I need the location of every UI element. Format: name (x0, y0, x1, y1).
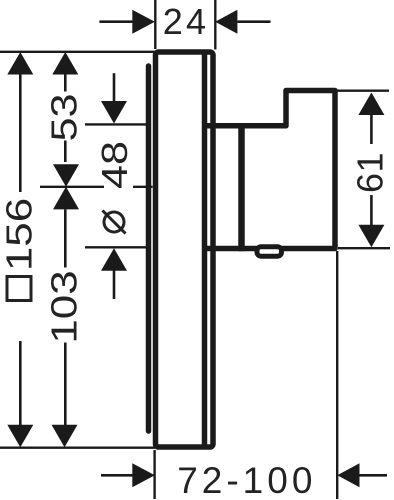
dim 48 upper tail (113, 73, 116, 102)
dim 48 top arrow (101, 101, 127, 124)
dim 103 lower tail (64, 343, 67, 426)
body inner vertical line (238, 123, 245, 251)
svg-text:24: 24 (163, 1, 209, 42)
svg-text:103: 103 (44, 270, 84, 343)
plate front face line (146, 66, 152, 431)
dim 103 upper tail (64, 210, 67, 268)
body outline with top box (202, 91, 335, 249)
dim 61 upper tail (370, 115, 373, 145)
svg-text:48: 48 (95, 141, 135, 189)
hourglass lower arrow (53, 187, 79, 210)
dim 61 lower tail (370, 195, 373, 226)
svg-text:72-100: 72-100 (177, 460, 316, 500)
square symbol (7, 277, 31, 301)
dim 24 right arrow (215, 10, 237, 34)
dim 48 bottom arrow (101, 248, 127, 270)
dim 53 top arrow (52, 52, 78, 75)
bottom tab clip (257, 247, 282, 256)
extension line box top right (337, 89, 389, 91)
diameter symbol slash (103, 211, 126, 234)
extension line 72-100 left (153, 450, 155, 499)
dim 156 top arrow (7, 52, 33, 75)
dim 53 lower tail (64, 141, 67, 163)
plate outline (escutcheon side view) (156, 52, 214, 447)
extension line 72-100 right (336, 251, 338, 499)
dim 24 left tail (99, 20, 133, 23)
dim 103 bottom arrow (52, 425, 78, 448)
dim 156 upper tail (19, 74, 22, 192)
svg-text:61: 61 (350, 152, 391, 193)
dim 24 right tail (238, 20, 271, 23)
tick diameter 48 top (85, 123, 147, 125)
axis line right segment (133, 186, 153, 188)
plate inner back line A (202, 54, 208, 445)
dim 24 left arrow (132, 10, 155, 34)
dim 61 top arrow (358, 93, 384, 116)
hourglass upper arrow (53, 164, 79, 187)
dim 53 upper tail (64, 74, 67, 92)
svg-text:53: 53 (45, 93, 85, 141)
tick diameter 48 bottom (85, 246, 147, 248)
extension line top left (0, 51, 155, 53)
extension line 24 right (214, 0, 216, 50)
dim 156 lower tail (19, 341, 22, 425)
dim 72-100 right arrow (337, 463, 359, 487)
dim 48 lower tail (113, 270, 116, 299)
extension line bottom left (0, 447, 155, 449)
axis line left segment (40, 186, 104, 188)
dim 156 bottom arrow (7, 425, 33, 448)
extension line body bottom right (338, 247, 390, 249)
svg-text:156: 156 (0, 198, 40, 271)
dim 72-100 left arrow (132, 463, 155, 487)
dim 72-100 left tail (101, 474, 133, 477)
dim 61 bottom arrow (358, 225, 384, 248)
diameter symbol circle (104, 212, 124, 232)
dim 72-100 right tail (359, 474, 387, 477)
extension line 24 left (154, 0, 156, 49)
